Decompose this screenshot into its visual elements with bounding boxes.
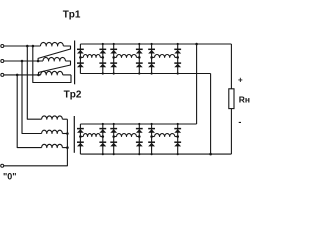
node plus rail junction (195, 43, 198, 46)
wire rectifier2 bottom rail (-) (80, 153, 231, 155)
wire rectifier2 top rail (80, 123, 196, 125)
node rectifier2 winding L2 left (112, 135, 115, 138)
diode VD5 (110, 49, 117, 53)
node rectifier1 winding L2 left (112, 56, 115, 59)
node rectifier2 leg 5 bottom rail junction (151, 153, 153, 155)
node rectifier2 leg 5 top rail junction (151, 123, 153, 125)
diode VD21 (148, 129, 155, 133)
transformer secondary winding rectifier2-L3 (152, 134, 178, 137)
node rectifier2 winding L1 right (102, 135, 105, 138)
node W5 star junction (66, 132, 69, 135)
node rectifier2 leg 4 top rail junction (138, 123, 140, 125)
input terminal phase B (1, 60, 4, 63)
node rectifier2 leg 6 bottom rail junction (177, 153, 179, 155)
transformer Tp2 winding W5 (phase B) (42, 130, 63, 133)
svg-text:+: + (238, 76, 243, 85)
input terminal phase A (1, 45, 4, 48)
wire rectifier1 leg 1 (79, 44, 81, 74)
node rectifier1 winding L1 left (79, 56, 82, 59)
diode VD6 (110, 63, 117, 67)
transformer Tp1 winding W2 (phase B) (43, 57, 65, 61)
svg-text:Rн: Rн (239, 95, 250, 105)
node rectifier2 leg 3 top rail junction (113, 123, 115, 125)
transformer secondary winding rectifier1-L3 (152, 55, 178, 58)
diode VD20 (136, 142, 143, 146)
node rectifier2 leg 2 bottom rail junction (102, 153, 104, 155)
transformer secondary winding rectifier2-L1 (80, 134, 102, 137)
diode VD4 (99, 63, 106, 67)
wire rectifier1 plus to rectifier2 plus (196, 44, 198, 124)
wire rectifier1 bottom rail (80, 73, 210, 75)
wire phase B drop to Tp2 (22, 61, 42, 134)
wire minus feed to load (230, 109, 232, 155)
node phase C tap (16, 74, 19, 77)
node rectifier1 winding L3 right (176, 56, 179, 59)
node W6 star junction (66, 146, 69, 149)
diode VD13 (77, 129, 84, 133)
wire rectifier1 leg 3 (113, 44, 115, 74)
transformer Tp2 core (73, 116, 75, 153)
node phase A tap 1 (26, 45, 29, 48)
diode VD7 (136, 49, 143, 53)
wire rectifier1 leg 6 (177, 44, 179, 74)
diode VD17 (110, 129, 117, 133)
node rectifier1 winding L1 right (102, 56, 105, 59)
wire W6 right lead (62, 147, 67, 149)
diode VD16 (99, 142, 106, 146)
node rectifier1 winding L3 left (150, 56, 153, 59)
node rectifier1 leg 5 bottom rail junction (151, 72, 153, 74)
node phase A tap 2 (32, 45, 35, 48)
node rectifier1 leg 5 top rail junction (151, 43, 153, 45)
svg-text:Tp2: Tp2 (64, 90, 82, 101)
transformer Tp1 core (74, 41, 76, 85)
wire Tp1 neutral return (33, 46, 71, 83)
diode VD15 (99, 129, 106, 133)
wire rectifier2 leg 5 (151, 124, 153, 154)
wire rectifier2 leg 3 (113, 124, 115, 154)
diode VD24 (174, 142, 181, 146)
input terminal neutral (1, 164, 4, 167)
node W1-W2 junction (37, 60, 40, 63)
node rectifier1 leg 2 bottom rail junction (102, 72, 104, 74)
node W2-W3 junction (37, 74, 40, 77)
node rectifier2 leg 3 bottom rail junction (113, 153, 115, 155)
transformer secondary winding rectifier1-L2 (114, 55, 140, 58)
node rectifier2 winding L2 right (138, 135, 141, 138)
node rectifier1 leg 6 bottom rail junction (177, 72, 179, 74)
diode VD3 (99, 49, 106, 53)
diode VD10 (148, 63, 155, 67)
node rectifier2 leg 4 bottom rail junction (138, 153, 140, 155)
wire plus feed to load (230, 44, 232, 89)
wire rectifier1 minus down (210, 74, 212, 155)
transformer Tp2 winding W6 (phase C) (42, 144, 63, 147)
wire rectifier2 leg 6 (177, 124, 179, 154)
node minus rail junction (209, 153, 212, 156)
diode VD11 (174, 49, 181, 53)
diode VD8 (136, 63, 143, 67)
node phase B tap (21, 60, 24, 63)
wire W5 right lead (62, 133, 67, 135)
svg-text:Tp1: Tp1 (63, 10, 81, 21)
wire rectifier1 top rail (+) (80, 43, 231, 45)
node rectifier1 leg 3 top rail junction (113, 43, 115, 45)
node rectifier2 winding L3 left (150, 135, 153, 138)
diode VD19 (136, 129, 143, 133)
wire phase C drop to Tp2 (17, 75, 41, 148)
transformer Tp2 winding W4 (phase A) (42, 116, 63, 119)
transformer Tp1 winding W3 (phase C) (41, 71, 63, 75)
diode VD9 (148, 49, 155, 53)
node rectifier1 leg 3 bottom rail junction (113, 72, 115, 74)
node rectifier2 winding L1 left (79, 135, 82, 138)
node rectifier1 leg 6 top rail junction (177, 43, 179, 45)
node rectifier1 leg 4 bottom rail junction (138, 72, 140, 74)
node rectifier2 winding L3 right (176, 135, 179, 138)
diode VD2 (77, 63, 84, 67)
resistor Rn load (229, 89, 234, 109)
transformer Tp1 winding W1 (phase A) (41, 42, 64, 46)
wire Tp2 star point (4, 119, 68, 166)
wire phase A drop to Tp2 (27, 46, 41, 119)
node rectifier2 leg 6 top rail junction (177, 123, 179, 125)
node rectifier1 leg 2 top rail junction (102, 43, 104, 45)
wire phase C (4, 74, 41, 76)
wire rectifier2 leg 4 (138, 124, 140, 154)
wire W1 to zigzag step (38, 46, 70, 61)
wire rectifier2 leg 2 (102, 124, 104, 154)
wire rectifier2 leg 1 (79, 124, 81, 154)
svg-text:"0": "0" (3, 172, 17, 182)
wire rectifier1 leg 5 (151, 44, 153, 74)
wire phase A (4, 45, 41, 47)
diode VD23 (174, 129, 181, 133)
wire W4 right lead (62, 118, 67, 120)
diode VD14 (77, 142, 84, 146)
diode VD12 (174, 63, 181, 67)
diode VD1 (77, 49, 84, 53)
input terminal phase C (1, 73, 4, 76)
node rectifier1 winding L2 right (138, 56, 141, 59)
transformer secondary winding rectifier1-L1 (80, 55, 102, 58)
diode VD22 (148, 142, 155, 146)
wire rectifier1 leg 4 (138, 44, 140, 74)
node rectifier1 leg 4 top rail junction (138, 43, 140, 45)
diode VD18 (110, 142, 117, 146)
node rectifier2 leg 2 top rail junction (102, 123, 104, 125)
svg-text:-: - (238, 117, 241, 127)
transformer secondary winding rectifier2-L2 (114, 134, 140, 137)
wire W3 right lead (63, 74, 71, 76)
wire phase B (4, 60, 43, 62)
wire W2 to zigzag step (39, 61, 71, 75)
wire rectifier1 leg 2 (102, 44, 104, 74)
